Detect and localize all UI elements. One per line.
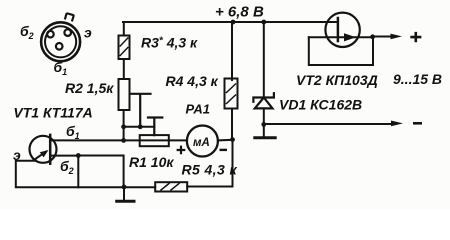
svg-text:9...15 В: 9...15 В xyxy=(393,71,442,87)
svg-text:VT1 КТ117А: VT1 КТ117А xyxy=(13,105,92,121)
svg-text:б2: б2 xyxy=(60,158,74,176)
svg-text:+ 6,8 В: + 6,8 В xyxy=(215,4,264,21)
svg-text:РА1: РА1 xyxy=(186,102,210,117)
svg-text:мА: мА xyxy=(193,137,210,149)
svg-text:э: э xyxy=(84,25,92,41)
svg-text:VT2 КП103Д: VT2 КП103Д xyxy=(296,72,378,88)
svg-text:э: э xyxy=(13,147,21,163)
svg-text:б2: б2 xyxy=(20,23,34,41)
svg-text:R5 4,3 к: R5 4,3 к xyxy=(182,162,238,178)
svg-text:R3* 4,3 к: R3* 4,3 к xyxy=(141,35,198,51)
svg-text:б1: б1 xyxy=(66,123,80,141)
svg-text:R2 1,5к: R2 1,5к xyxy=(65,80,114,96)
svg-text:R1 10к: R1 10к xyxy=(129,154,174,170)
svg-text:R4 4,3 к: R4 4,3 к xyxy=(166,73,219,89)
svg-text:VD1 КС162В: VD1 КС162В xyxy=(279,97,362,113)
